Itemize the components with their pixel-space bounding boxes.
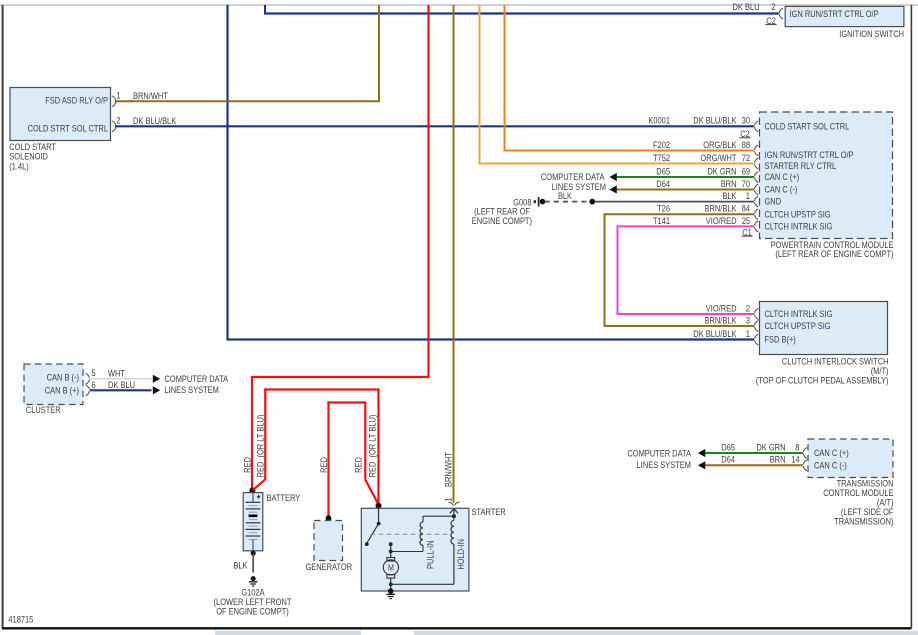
- connector label C2: [765, 16, 776, 26]
- svg-text:5: 5: [92, 368, 96, 378]
- svg-text:BRN: BRN: [721, 179, 737, 189]
- wire RED battery positive feed from top: [252, 5, 430, 489]
- junction starter battery terminal: [376, 503, 382, 509]
- pin 69 PCM: [742, 166, 750, 176]
- svg-text:RED: RED: [242, 457, 252, 473]
- svg-text:2: 2: [771, 2, 775, 12]
- wire DK BLU ignition switch feed: [264, 5, 779, 14]
- svg-text:70: 70: [742, 179, 750, 189]
- wire BLK battery negative: [252, 553, 254, 572]
- cluster: [24, 364, 83, 405]
- svg-text:ORG/BLK: ORG/BLK: [703, 140, 736, 150]
- wire BRN/WHT starter solenoid pin 1: [453, 5, 455, 503]
- svg-text:DK GRN: DK GRN: [756, 442, 785, 452]
- svg-text:(LEFT REAR OF ENGINE COMPT): (LEFT REAR OF ENGINE COMPT): [775, 249, 893, 259]
- label circuit D65: [656, 166, 670, 176]
- pin 14 TCM: [791, 455, 799, 465]
- pin 2 ignition switch: [771, 2, 775, 12]
- pin 2 cold start solenoid: [116, 116, 120, 126]
- svg-text:DK BLU: DK BLU: [733, 2, 760, 12]
- svg-text:CAN C (+): CAN C (+): [765, 172, 800, 182]
- svg-text:88: 88: [742, 140, 750, 150]
- connector cold start solenoid pin 2: [112, 121, 116, 132]
- wire BLK dashed from G008: [545, 201, 591, 203]
- svg-text:(LEFT SIDE OF: (LEFT SIDE OF: [841, 507, 894, 517]
- svg-text:(M/T): (M/T): [871, 366, 889, 376]
- svg-text:CAN C (-): CAN C (-): [765, 185, 798, 195]
- svg-text:CLTCH UPSTP SIG: CLTCH UPSTP SIG: [765, 321, 831, 331]
- label ground G102A: [241, 587, 264, 597]
- wire BRN/WHT cold start solenoid pin 1: [115, 5, 380, 101]
- svg-text:WHT: WHT: [108, 369, 125, 379]
- svg-text:2: 2: [116, 116, 120, 126]
- wire motor to starter ground: [389, 578, 393, 591]
- svg-text:DK BLU/BLK: DK BLU/BLK: [693, 116, 736, 126]
- svg-text:BLK: BLK: [558, 191, 572, 201]
- svg-text:DK BLU/BLK: DK BLU/BLK: [133, 116, 176, 126]
- generator: [314, 521, 343, 561]
- svg-text:RED: RED: [354, 457, 364, 473]
- wire pull-in coil to motor: [391, 545, 423, 551]
- svg-text:CAN B (+): CAN B (+): [45, 385, 79, 395]
- svg-text:(1.4L): (1.4L): [9, 161, 29, 171]
- svg-text:CAN C (-): CAN C (-): [814, 460, 847, 470]
- label G102A location: [214, 597, 292, 617]
- svg-text:DK GRN: DK GRN: [707, 166, 736, 176]
- connector PCM pin 70: [755, 184, 759, 195]
- pin 2 clutch interlock switch: [746, 303, 750, 313]
- connector PCM pin 88: [755, 145, 759, 156]
- pin 88 PCM: [742, 140, 750, 150]
- svg-text:ENGINE COMPT): ENGINE COMPT): [472, 216, 532, 226]
- label computer data lines system (cluster): [165, 374, 229, 395]
- svg-text:14: 14: [791, 455, 799, 465]
- svg-text:CLTCH UPSTP SIG: CLTCH UPSTP SIG: [765, 209, 831, 219]
- connector TCM pin 8: [803, 448, 807, 459]
- junction battery negative terminal: [251, 551, 256, 556]
- powertrain control module: [760, 112, 893, 239]
- svg-text:M: M: [388, 563, 394, 573]
- wire ORG/WHT PCM pin 72: [479, 5, 755, 164]
- connector PCM pin 30: [755, 121, 759, 132]
- label circuit T752: [653, 153, 670, 163]
- wire RED generator to starter: [327, 401, 378, 517]
- wire DK GRN TCM pin 8: [705, 452, 803, 454]
- arrow starter pin 1 entry: [450, 509, 458, 517]
- wire DK BLU/BLK FSD B(+) horizontal to clutch interlock switch: [226, 338, 754, 340]
- svg-text:CLTCH INTRLK SIG: CLTCH INTRLK SIG: [765, 221, 833, 231]
- svg-text:BLK: BLK: [722, 191, 736, 201]
- connector starter pin 1: [448, 502, 459, 506]
- svg-text:(TOP OF CLUTCH PEDAL ASSEMBLY): (TOP OF CLUTCH PEDAL ASSEMBLY): [756, 375, 889, 385]
- clutch interlock switch: [760, 302, 888, 355]
- wire BRN/BLK PCM pin 84 to clutch interlock pin 3: [604, 213, 755, 327]
- pin 25 PCM: [742, 216, 750, 226]
- svg-text:84: 84: [742, 204, 750, 214]
- motor M starter: [383, 558, 398, 579]
- svg-text:6: 6: [92, 380, 96, 390]
- label cluster: [26, 405, 61, 415]
- arrow computer data lines (PCM CAN C +): [609, 173, 616, 181]
- wire BRN CAN C (-) PCM pin 70: [617, 189, 754, 191]
- label G008 location: [472, 206, 532, 225]
- connector cluster pin 5: [86, 373, 90, 384]
- connector TCM pin 14: [803, 460, 807, 471]
- wire pull-in branch: [423, 515, 454, 517]
- label ground G008: [513, 197, 531, 207]
- svg-text:VIO/RED: VIO/RED: [706, 216, 737, 226]
- label BLK (battery ground): [233, 560, 247, 570]
- wire BRN TCM pin 14: [705, 464, 803, 466]
- svg-text:IGN RUN/STRT CTRL O/P: IGN RUN/STRT CTRL O/P: [765, 150, 854, 160]
- arrow computer data lines (TCM CAN C +): [698, 449, 705, 457]
- label ignition switch: [839, 29, 904, 39]
- splice junction on BLK ground wire: [589, 199, 595, 205]
- ground G008: [534, 197, 546, 207]
- label pull-in: [426, 540, 436, 569]
- ignition switch: [785, 6, 904, 26]
- transmission control module: [808, 439, 893, 478]
- svg-text:DK BLU/BLK: DK BLU/BLK: [693, 329, 736, 339]
- label circuit D64: [656, 179, 670, 189]
- svg-text:COLD START: COLD START: [9, 142, 56, 152]
- svg-text:PULL-IN: PULL-IN: [426, 540, 436, 569]
- svg-text:RED: RED: [319, 457, 329, 473]
- label diagram number 418715: [8, 614, 33, 624]
- pin 1 starter (rotated): [444, 497, 454, 501]
- battery: [243, 493, 263, 551]
- svg-text:ORG/WHT: ORG/WHT: [700, 153, 737, 163]
- coil pull-in: [420, 516, 423, 545]
- switch starter solenoid contact: [365, 507, 381, 546]
- svg-text:TRANSMISSION: TRANSMISSION: [837, 478, 894, 488]
- label hold-in: [456, 539, 466, 570]
- svg-text:GND: GND: [765, 197, 782, 207]
- svg-text:IGN RUN/STRT CTRL O/P: IGN RUN/STRT CTRL O/P: [790, 9, 879, 19]
- svg-text:RED (OR LT BLU): RED (OR LT BLU): [255, 415, 265, 478]
- svg-text:BRN/WHT: BRN/WHT: [133, 91, 168, 101]
- connector PCM pin 72: [755, 158, 759, 169]
- wire DK BLU/BLK cold start solenoid pin 2 to PCM pin 30: [115, 125, 754, 127]
- svg-text:FSD B(+): FSD B(+): [765, 335, 796, 345]
- label circuit T141: [653, 216, 670, 226]
- label DK BLU/BLK (clutch pin 1): [693, 329, 736, 339]
- connector cold start solenoid pin 1: [112, 96, 116, 107]
- svg-text:F202: F202: [653, 140, 670, 150]
- connector PCM pin 84: [755, 209, 759, 220]
- pin 3 clutch interlock switch: [746, 315, 750, 325]
- svg-text:COLD START SOL CTRL: COLD START SOL CTRL: [765, 121, 850, 131]
- label DK BLU: [108, 380, 135, 390]
- label RED (battery feed): [242, 457, 252, 473]
- label RED (OR LT BLU) starter side: [368, 415, 378, 478]
- connector label C1 (PCM): [741, 227, 752, 237]
- svg-text:BRN/BLK: BRN/BLK: [705, 204, 737, 214]
- pin 1 PCM: [746, 191, 750, 201]
- svg-text:1: 1: [746, 191, 750, 201]
- label battery: [267, 493, 301, 503]
- pin 84 PCM: [742, 204, 750, 214]
- svg-text:COMPUTER DATA: COMPUTER DATA: [541, 172, 605, 182]
- label clutch interlock switch location: [756, 356, 889, 385]
- label VIO/RED (clutch pin 2): [706, 303, 737, 313]
- arrow computer data lines (TCM CAN C -): [698, 461, 705, 469]
- svg-text:T26: T26: [657, 204, 670, 214]
- svg-text:FSD ASD RLY O/P: FSD ASD RLY O/P: [45, 95, 108, 105]
- svg-text:1: 1: [444, 497, 454, 501]
- svg-text:25: 25: [742, 216, 750, 226]
- svg-text:BATTERY: BATTERY: [267, 493, 301, 503]
- svg-text:3: 3: [746, 315, 750, 325]
- label BLK (PCM pin 1): [722, 191, 736, 201]
- pin 8 TCM: [795, 442, 799, 452]
- label BLK (ground wire): [558, 191, 572, 201]
- svg-text:8: 8: [795, 442, 799, 452]
- svg-text:TRANSMISSION): TRANSMISSION): [834, 516, 893, 526]
- svg-text:LINES SYSTEM: LINES SYSTEM: [165, 385, 219, 395]
- wire VIO/RED PCM pin 25 to clutch interlock pin 2: [617, 225, 755, 315]
- svg-text:69: 69: [742, 166, 750, 176]
- svg-text:1: 1: [746, 329, 750, 339]
- label ORG/WHT (PCM pin 72): [700, 153, 737, 163]
- label DK BLU: [733, 2, 760, 12]
- label cold start solenoid (1.4L): [9, 142, 56, 171]
- linkage dashed (solenoid to contact): [371, 533, 450, 535]
- svg-text:1: 1: [116, 90, 120, 100]
- label circuit D65 (TCM): [721, 442, 735, 452]
- label circuit K0001: [648, 116, 670, 126]
- pin 30 PCM: [742, 116, 750, 126]
- pin 1 cold start solenoid: [116, 90, 120, 100]
- junction hold-in coil top: [452, 514, 456, 518]
- svg-text:CLTCH INTRLK SIG: CLTCH INTRLK SIG: [765, 309, 833, 319]
- svg-text:RED (OR LT BLU): RED (OR LT BLU): [368, 415, 378, 478]
- svg-text:T141: T141: [653, 216, 670, 226]
- svg-text:IGNITION SWITCH: IGNITION SWITCH: [839, 29, 904, 39]
- starter: [361, 508, 469, 591]
- svg-text:HOLD-IN: HOLD-IN: [456, 539, 466, 570]
- label transmission control module location: [823, 478, 894, 526]
- wire DK BLU/BLK FSD B(+) vertical run: [226, 5, 228, 340]
- svg-text:72: 72: [742, 153, 750, 163]
- label starter: [472, 507, 507, 517]
- label DK BLU/BLK (PCM pin 30): [693, 116, 736, 126]
- arrow computer data lines (cluster CAN B +): [153, 386, 160, 394]
- svg-text:COMPUTER DATA: COMPUTER DATA: [627, 449, 691, 459]
- pin 70 PCM: [742, 179, 750, 189]
- connector clutch interlock switch pin 1: [755, 334, 759, 345]
- connector PCM pin 25: [755, 221, 759, 232]
- svg-text:BLK: BLK: [233, 560, 247, 570]
- junction battery positive terminal: [249, 488, 255, 494]
- label RED (starter side): [354, 457, 364, 473]
- svg-text:2: 2: [746, 303, 750, 313]
- svg-text:K0001: K0001: [648, 116, 670, 126]
- label DK BLU/BLK: [133, 116, 176, 126]
- connector cluster pin 6: [86, 385, 90, 396]
- connector label C2 (PCM): [739, 129, 750, 139]
- svg-text:418715: 418715: [8, 614, 33, 624]
- svg-text:LINES SYSTEM: LINES SYSTEM: [637, 460, 691, 470]
- label DK GRN (TCM pin 8): [756, 442, 785, 452]
- pin 5 cluster: [92, 368, 96, 378]
- label ORG/BLK (PCM pin 88): [703, 140, 736, 150]
- wire ORG/BLK PCM pin 88: [504, 5, 755, 151]
- svg-text:T752: T752: [653, 153, 670, 163]
- label RED (generator): [319, 457, 329, 473]
- wire BLK to PCM pin 1 GND: [595, 201, 755, 203]
- pin 72 PCM: [742, 153, 750, 163]
- svg-text:GENERATOR: GENERATOR: [306, 562, 353, 572]
- svg-text:DK BLU: DK BLU: [108, 380, 135, 390]
- svg-text:CAN C (+): CAN C (+): [814, 448, 849, 458]
- label circuit F202: [653, 140, 670, 150]
- label BRN/WHT: [133, 91, 168, 101]
- label computer data lines system (TCM): [627, 449, 691, 471]
- svg-text:D65: D65: [721, 442, 735, 452]
- svg-text:D65: D65: [656, 166, 670, 176]
- label BRN/BLK (clutch pin 3): [705, 315, 737, 325]
- label BRN/WHT (starter feed): [443, 452, 453, 487]
- svg-text:STARTER: STARTER: [472, 507, 507, 517]
- wire WHT cluster pin 5: [90, 378, 152, 380]
- cold start solenoid: [10, 88, 111, 141]
- connector PCM pin 1: [755, 196, 759, 207]
- svg-text:30: 30: [742, 116, 750, 126]
- arrow computer data lines (cluster CAN B -): [153, 375, 160, 383]
- svg-text:CLUSTER: CLUSTER: [26, 405, 61, 415]
- svg-text:D64: D64: [721, 455, 735, 465]
- svg-text:OF ENGINE COMPT): OF ENGINE COMPT): [216, 606, 289, 616]
- arrow computer data lines (PCM CAN C -): [609, 185, 616, 193]
- svg-text:CLUTCH INTERLOCK SWITCH: CLUTCH INTERLOCK SWITCH: [782, 356, 889, 366]
- wire DK GRN CAN C (+) PCM pin 69: [617, 176, 754, 178]
- ground G102A: [249, 576, 258, 586]
- ground starter case: [386, 594, 395, 598]
- connector clutch interlock switch pin 2: [755, 309, 759, 320]
- label BRN (TCM pin 14): [770, 455, 786, 465]
- wire hold-in coil to ground bus: [391, 544, 454, 584]
- svg-text:D64: D64: [656, 179, 670, 189]
- connector PCM pin 69: [755, 172, 759, 183]
- svg-text:VIO/RED: VIO/RED: [706, 303, 737, 313]
- label powertrain control module location: [771, 240, 894, 259]
- label computer data lines system (PCM): [541, 172, 606, 192]
- connector C2 ignition switch pin 2: [779, 8, 783, 19]
- svg-text:(LOWER LEFT FRONT: (LOWER LEFT FRONT: [214, 597, 292, 607]
- label DK GRN (PCM pin 69): [707, 166, 736, 176]
- label BRN (PCM pin 70): [721, 179, 737, 189]
- junction starter ground: [388, 588, 394, 594]
- wire RED (OR LT BLU) battery to starter: [252, 388, 379, 504]
- connector clutch interlock switch pin 3: [755, 321, 759, 332]
- wire DK BLU cluster pin 6: [90, 389, 152, 391]
- pin 6 cluster: [92, 380, 96, 390]
- junction generator output: [326, 515, 332, 521]
- label generator: [306, 562, 353, 572]
- label circuit T26: [657, 204, 670, 214]
- wire starter motor feed: [389, 542, 393, 557]
- label circuit D64 (TCM): [721, 455, 735, 465]
- svg-text:COMPUTER DATA: COMPUTER DATA: [165, 374, 229, 384]
- coil hold-in: [451, 516, 454, 544]
- svg-text:BRN/BLK: BRN/BLK: [705, 315, 737, 325]
- svg-text:BRN: BRN: [770, 455, 786, 465]
- svg-text:BRN/WHT: BRN/WHT: [443, 452, 453, 487]
- label WHT: [108, 369, 125, 379]
- label VIO/RED (PCM pin 25): [706, 216, 737, 226]
- svg-text:STARTER RLY CTRL: STARTER RLY CTRL: [765, 161, 837, 171]
- label BRN/BLK (PCM pin 84): [705, 204, 737, 214]
- pin 1 clutch interlock switch: [746, 329, 750, 339]
- svg-text:SOLENOID: SOLENOID: [9, 152, 48, 162]
- svg-text:CAN B (-): CAN B (-): [47, 372, 79, 382]
- label RED (OR LT BLU) battery side: [255, 415, 265, 478]
- svg-text:COLD STRT SOL CTRL: COLD STRT SOL CTRL: [28, 124, 108, 134]
